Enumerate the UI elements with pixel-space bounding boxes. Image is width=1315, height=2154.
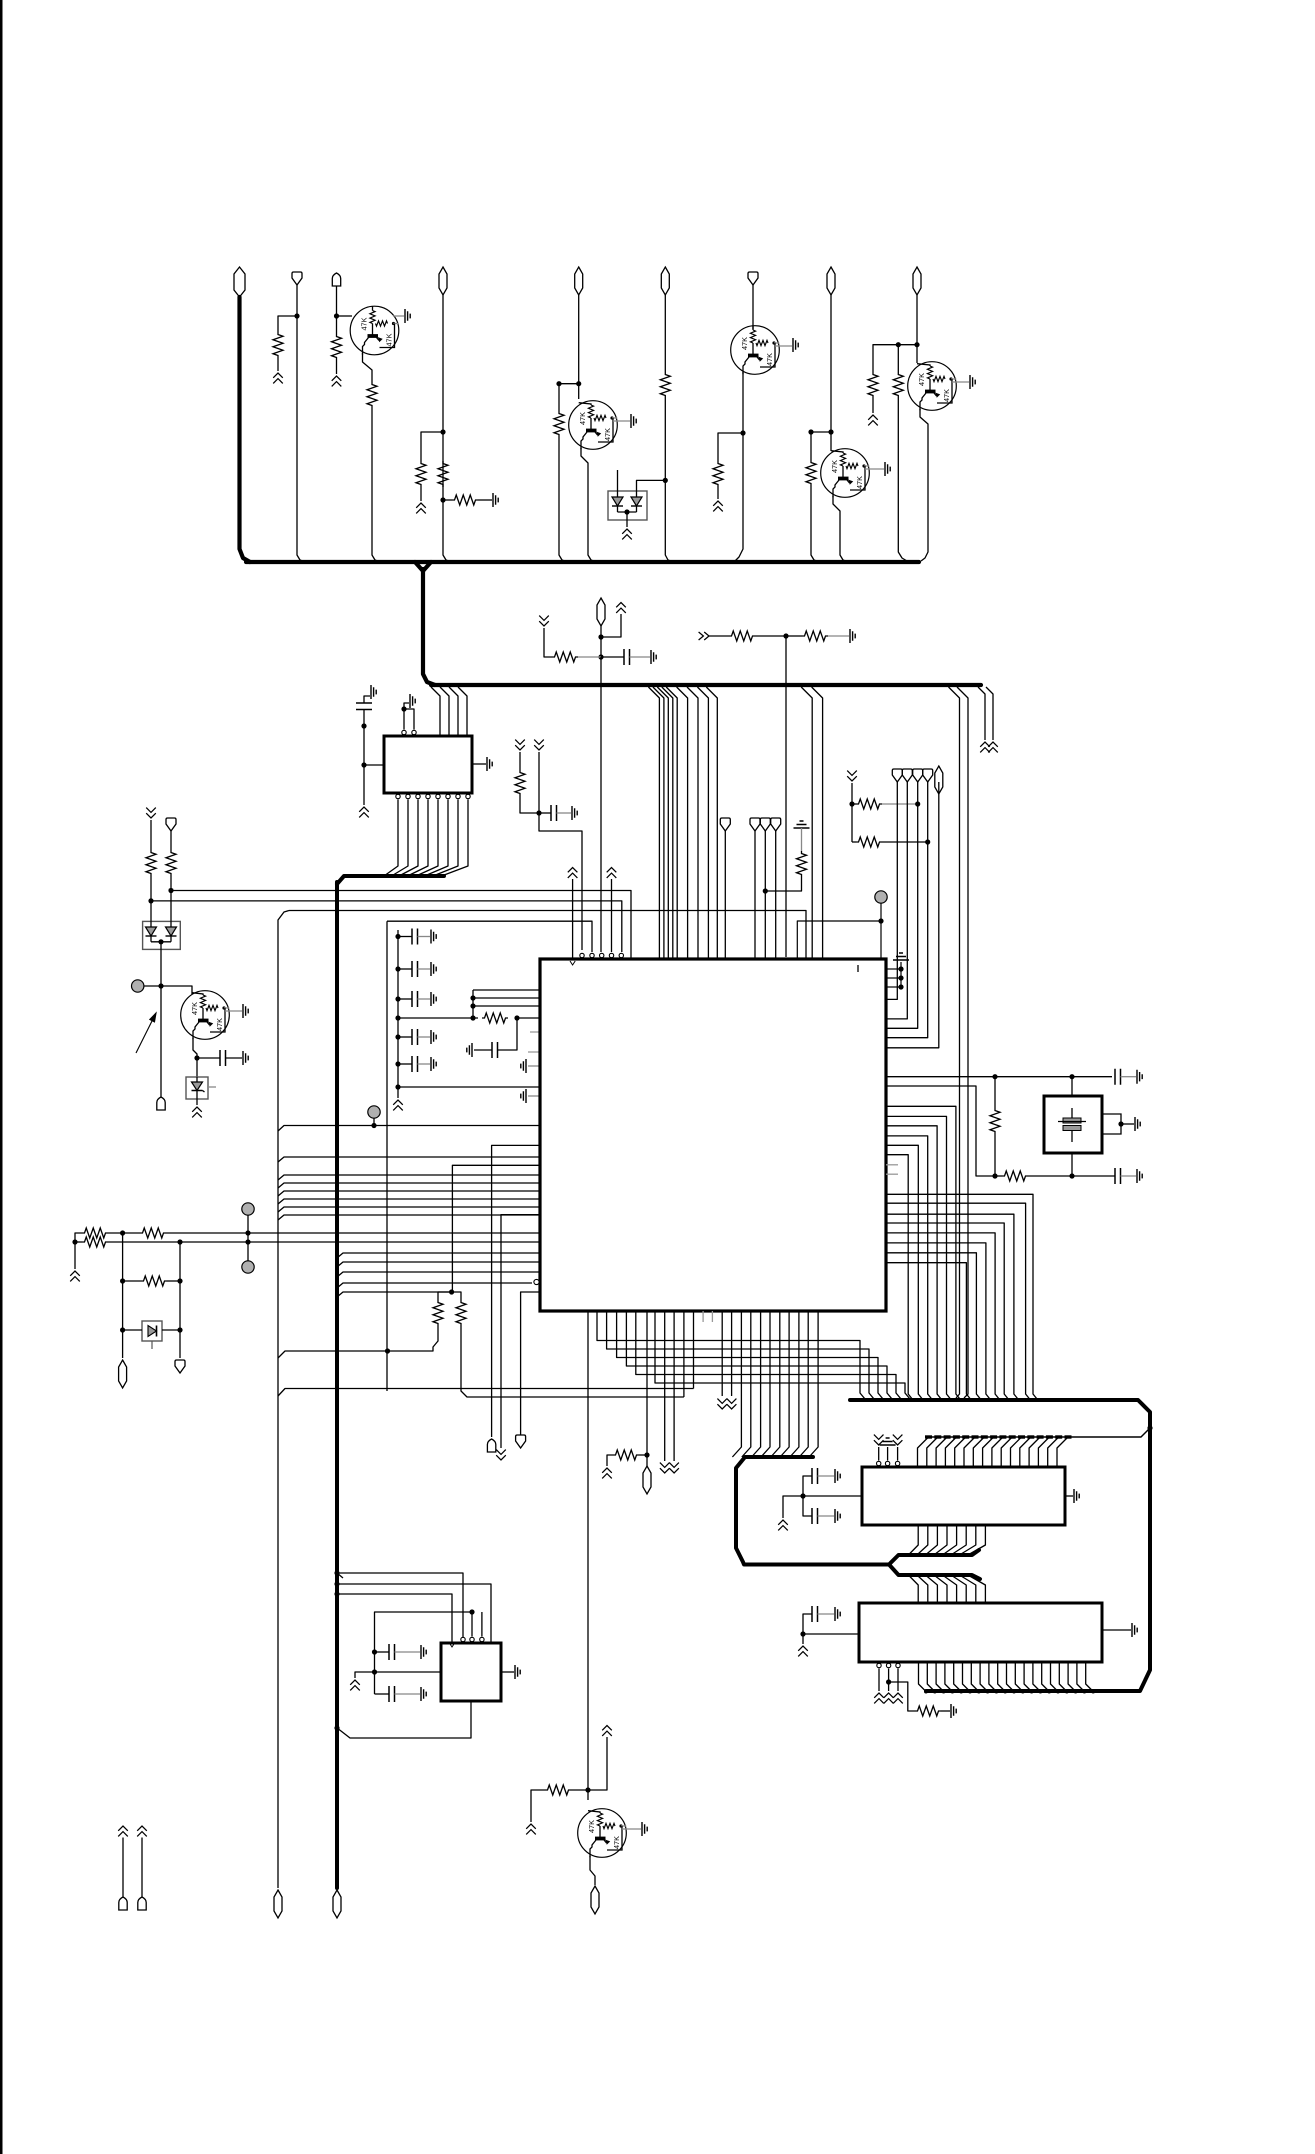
wire to R4	[421, 432, 443, 461]
wire chevron down and right	[544, 628, 552, 657]
ground for C3	[572, 806, 577, 820]
svg-text:47K: 47K	[917, 373, 926, 386]
left bold rail (vertical)	[335, 882, 339, 1888]
ground for R15	[850, 629, 855, 643]
U4 pin wire chevron A	[878, 1669, 880, 1692]
chevron source left net 1	[146, 808, 156, 818]
rail branch y1283 to bubble	[337, 1283, 532, 1288]
node left net a	[372, 1649, 377, 1654]
resistor R12	[897, 345, 899, 372]
node P5	[576, 381, 581, 386]
wire Q3 emitter to bus	[735, 433, 743, 561]
chevron terminal left net	[74, 1242, 76, 1269]
capacitor C12	[1072, 1175, 1115, 1177]
wire node to U2 left pin	[364, 764, 384, 766]
U1 bottom pin to row 1397	[683, 1311, 685, 1397]
rail branch y1272	[337, 1272, 540, 1277]
resistor R14 horizontal	[729, 631, 755, 641]
node P4 upper	[440, 429, 445, 434]
connector pins P15-P18 (flag)	[892, 769, 902, 782]
IC U1 (main microcontroller)	[540, 959, 886, 1311]
connector pin P23	[591, 1886, 599, 1914]
wire to R14	[709, 635, 729, 637]
resistor R24	[797, 851, 807, 877]
pin wires down to U1 right edge	[886, 782, 897, 999]
wire R19 to IC	[517, 1017, 540, 1019]
wire chevron to U5 left pin	[355, 1672, 441, 1678]
wires bus to U1 top edge (right group)	[801, 687, 812, 958]
Q2 lead to ground	[613, 420, 630, 422]
capacitor C7	[398, 998, 412, 1000]
node cap net	[536, 810, 541, 815]
wire P5 down to node	[578, 295, 580, 384]
node xtal bottom A	[992, 1173, 997, 1178]
wire node left to R7	[559, 384, 579, 411]
bus right end wire B	[986, 687, 993, 740]
connector pin P7	[748, 272, 758, 285]
ground for C8	[431, 1030, 436, 1044]
ground for C2	[371, 685, 376, 699]
resistor R26 horizontal	[82, 1237, 108, 1247]
Q7 emitter wire down	[590, 1856, 595, 1885]
wire P9 into Q5	[916, 345, 918, 363]
ground for C10 net	[467, 1043, 472, 1057]
svg-text:47K: 47K	[578, 412, 587, 425]
transistor Q3 (digital)	[731, 326, 780, 375]
resistor R5	[438, 461, 448, 487]
U1 bottom pin chevron A	[664, 1311, 666, 1461]
node P10 upper	[598, 634, 603, 639]
wire rail X top to IC pin 806	[289, 911, 806, 959]
chevron terminal D1	[622, 529, 632, 539]
ground for C17	[421, 1687, 426, 1701]
Q5 emitter to bus	[920, 409, 928, 561]
svg-text:47K: 47K	[215, 1018, 224, 1031]
wire C1 to ground	[630, 656, 651, 658]
node cap bank 1	[395, 934, 400, 939]
node P10 lower	[598, 654, 603, 659]
capacitor C17	[375, 1693, 390, 1695]
page left edge bar	[0, 0, 3, 2154]
connector pin P24 (bullet)	[119, 1897, 127, 1910]
U1 top clock pin with chevron	[568, 868, 578, 878]
U1 left stub row 1292 down to pin	[521, 1292, 540, 1435]
test point node (gray)	[132, 980, 144, 992]
chevron source bottom-left B	[137, 1826, 147, 1836]
node C2b	[361, 762, 366, 767]
chevron terminal R4	[416, 503, 426, 513]
capacitor C13	[803, 1476, 812, 1496]
U5 right stub ground	[501, 1671, 514, 1673]
U1 right edge outer bundle to loop bus	[886, 1194, 1039, 1400]
U2 right pin to ground	[472, 763, 486, 765]
wire gray node down	[880, 903, 882, 958]
long wire y1388 to U1 pin	[278, 1389, 694, 1397]
connector pin P4	[439, 267, 447, 295]
thick supply wire from P1 to bus	[240, 297, 251, 562]
svg-text:47K: 47K	[603, 428, 612, 441]
chevron terminal zener	[192, 1107, 202, 1117]
diode D4 in box	[142, 1321, 162, 1341]
U1 bottom pin wire staggered 4	[626, 1311, 895, 1400]
connector pin P12	[166, 818, 176, 831]
wire P8 down to node	[830, 295, 832, 432]
wire resistor row	[398, 1017, 478, 1019]
ground for C4	[243, 1051, 248, 1065]
U3 right stub ground	[1065, 1495, 1073, 1497]
wire P10 long down to IC1 pin	[600, 657, 602, 952]
chevron terminal below	[496, 1450, 506, 1460]
Q6 lead to ground	[225, 1010, 242, 1012]
wire node to chevron riser	[601, 614, 621, 637]
node P9	[914, 342, 919, 347]
wire node left to R10	[811, 432, 831, 460]
wire P2 down to bus	[297, 285, 305, 562]
node xtal bottom B	[1069, 1173, 1074, 1178]
chevron R30 left	[607, 1455, 613, 1466]
ground for triple stub	[893, 953, 909, 960]
crystal case tab	[1102, 1114, 1121, 1134]
Q5 lead to ground	[952, 381, 969, 383]
branch wire y1207	[278, 1207, 540, 1212]
node P4 lower	[440, 497, 445, 502]
node col1 a	[120, 1278, 125, 1283]
resistor R22	[994, 1077, 996, 1108]
ground for Q5	[970, 375, 975, 389]
resistor R1	[273, 332, 283, 358]
U5 pin riser c	[481, 1612, 483, 1637]
capacitor C9	[398, 1063, 412, 1065]
earth symbol above R24	[794, 821, 810, 828]
wire R24 to pin P28 wire	[765, 877, 801, 891]
branch wire y1215	[278, 1215, 540, 1220]
wire P7 into Q3	[752, 285, 754, 329]
svg-text:47K: 47K	[830, 460, 839, 473]
chevron source left	[539, 616, 549, 626]
resistor R2 below node	[336, 316, 338, 334]
Q1 collector lead to ground	[393, 315, 404, 317]
D2 internal junction	[151, 941, 171, 943]
ground for C11	[1137, 1070, 1142, 1084]
resistor R10	[806, 460, 816, 486]
resistor R29	[456, 1300, 466, 1326]
U1 bottom pin to row 1388	[693, 1311, 695, 1389]
wire gray node to junction	[144, 985, 161, 987]
D2b top lead	[170, 891, 172, 922]
connector pin P26 (flag)	[720, 818, 730, 831]
node Q6 emitter	[194, 1055, 199, 1060]
node xtal top A	[992, 1074, 997, 1079]
wire P12 to R18	[170, 831, 172, 850]
U1 pin1 mark	[857, 965, 859, 972]
crystal top lead	[1071, 1077, 1073, 1096]
node P8	[828, 429, 833, 434]
U1 bottom pin wire staggered 3	[617, 1311, 886, 1400]
chevron terminal cap bank	[393, 1100, 403, 1110]
resistor R7	[554, 411, 564, 437]
wires from lower bus into U2 top	[431, 687, 440, 736]
resistor R18	[166, 850, 176, 876]
resistor R21 horizontal	[856, 837, 882, 847]
Q4 lead to ground	[865, 468, 884, 470]
ground for C13	[835, 1469, 840, 1483]
long wire rail X (thin)	[278, 911, 289, 1889]
U2 top pins ground net	[403, 709, 405, 730]
chevron for U1 pin 611	[607, 868, 617, 878]
wire to R16	[519, 752, 521, 770]
wire R28 down to row	[388, 1326, 439, 1351]
wire C3 to ground	[557, 812, 572, 814]
annotation arrow (adjust)	[136, 1013, 156, 1053]
connector pin P28 (flag)	[760, 818, 770, 831]
branch wire y1183	[278, 1183, 540, 1188]
ground for C16	[421, 1645, 426, 1659]
chevron terminal B	[988, 742, 998, 752]
wire R18 to node	[170, 876, 172, 891]
U4 bottom-left pin circles	[877, 1663, 881, 1667]
connector pin P2	[292, 272, 302, 285]
IC left stub ground 1	[528, 1065, 540, 1067]
node cap bank 2	[395, 966, 400, 971]
capacitor C14	[803, 1496, 812, 1516]
wire Q6 emitter to zener	[196, 1058, 198, 1077]
ground for Q1	[405, 309, 410, 323]
rail branch y1292	[337, 1292, 452, 1297]
node left net b	[372, 1669, 377, 1674]
wire earth to R24	[801, 828, 803, 851]
wire R1 to chevron	[277, 358, 279, 371]
bus Y-junction branch down	[415, 562, 431, 571]
wire node to riser chevron	[588, 1737, 607, 1790]
wire down column 2	[179, 1242, 181, 1358]
wire R3 to bus	[372, 408, 380, 562]
node net1	[148, 898, 153, 903]
capacitor C6	[398, 968, 412, 970]
node row1 right	[915, 801, 920, 806]
node C2a	[361, 723, 366, 728]
resistor R8	[660, 372, 670, 398]
connector pin P22 below node	[646, 1455, 648, 1466]
capacitor C3	[539, 812, 551, 814]
svg-text:47K: 47K	[740, 337, 749, 350]
connector pin P29 (flag)	[771, 818, 781, 831]
left resistor network row 2	[75, 1241, 82, 1243]
svg-text:47K: 47K	[360, 317, 369, 330]
wire C2 top to ground	[364, 696, 370, 703]
bus right end wire A	[978, 687, 985, 740]
connector pin P3	[332, 273, 340, 286]
connector pin P19	[935, 766, 943, 794]
rail branch to U5 pin a	[337, 1573, 343, 1578]
chevron source B	[534, 740, 544, 750]
chevron terminal R1	[273, 373, 283, 383]
wire R10 to bus	[811, 486, 819, 562]
node R14/R15	[783, 633, 788, 638]
wire U1 to crystal bottom net	[886, 1086, 995, 1176]
node pin P28 wire	[763, 888, 768, 893]
svg-text:47K: 47K	[942, 389, 951, 402]
U3 fan from inner bus	[918, 1437, 929, 1466]
resistor R11	[868, 372, 878, 398]
U1 right edge gray stubs	[886, 1164, 898, 1166]
wire from y921 to pin 592	[387, 921, 592, 952]
crystal bottom lead	[1071, 1153, 1073, 1176]
transistor Q4 (digital)	[821, 449, 870, 498]
wire P5 node into Q2	[578, 384, 580, 399]
D1a top lead	[617, 470, 619, 491]
chevron terminal R9	[713, 501, 723, 511]
connector pin P14 at rail X bottom	[274, 1890, 282, 1918]
U4 right stub ground	[1102, 1629, 1131, 1631]
diode D2b	[166, 927, 177, 936]
U1 bottom fan to lower-left bold bus	[732, 1311, 741, 1457]
dual diode pack D1	[608, 491, 647, 520]
node cap bank 5	[395, 1061, 400, 1066]
rail branch y1262	[337, 1262, 540, 1267]
svg-text:47K: 47K	[587, 1820, 596, 1833]
node P3	[334, 313, 339, 318]
node R19 right	[514, 1015, 519, 1020]
node row2 right	[925, 839, 930, 844]
lower wire bus (thick horizontal)	[431, 683, 981, 687]
diode D1b	[631, 497, 642, 506]
gray node mid left	[368, 1106, 380, 1118]
U4 left bypass net	[803, 1634, 859, 1644]
capacitor C10	[474, 1049, 492, 1051]
U1 left stub row 1214 down to chevron	[501, 1215, 540, 1448]
bold fork upper bar	[886, 1550, 979, 1565]
branch wire y1175	[278, 1175, 540, 1180]
power bus (thick horizontal)	[246, 560, 919, 564]
U1 left stub net vertical	[472, 990, 474, 1018]
node row1 a	[120, 1230, 125, 1235]
bold loop top bus	[850, 1400, 1150, 1691]
transistor Q1 (digital)	[350, 306, 399, 355]
wire down to R17	[150, 820, 152, 850]
left resistor network row 1	[75, 1233, 82, 1242]
wire P10 to lower node	[600, 637, 602, 657]
wire C2 bottom down	[363, 710, 365, 806]
transistor Q5 (digital)	[908, 362, 957, 411]
ground for C9	[431, 1057, 436, 1071]
Q7 lead to ground	[622, 1828, 641, 1830]
ground for Q7	[642, 1822, 647, 1836]
node D2 output	[158, 983, 163, 988]
branch wire y1199	[278, 1199, 540, 1204]
U3 pin riser earth	[887, 1447, 889, 1461]
U1 left gray stub b	[528, 1051, 540, 1053]
chevron riser Q7	[602, 1726, 612, 1736]
capacitor C4	[197, 1057, 220, 1059]
node row2 b	[245, 1239, 250, 1244]
U4 pin wire chevron C	[897, 1669, 899, 1692]
connector pin P11 at rail bottom	[333, 1890, 341, 1918]
wire zener down	[196, 1099, 198, 1105]
resistor R28	[433, 1300, 443, 1326]
Q2 emitter wire to bus	[581, 448, 596, 562]
capacitor C8	[398, 1036, 412, 1038]
node Q3 emitter	[740, 430, 745, 435]
rail branch y1253	[337, 1253, 540, 1258]
Q3 emitter wire down	[742, 372, 744, 433]
U5 clock mark	[449, 1643, 454, 1647]
ground for C14	[835, 1509, 840, 1523]
Q3 lead to ground	[775, 345, 792, 347]
connector pin P13 (bullet)	[157, 1097, 165, 1110]
U1 bottom pin stub b	[711, 1311, 713, 1322]
long wire net2 to IC top pin 631	[171, 891, 631, 959]
wire R13 to node	[578, 656, 601, 658]
diode D1a	[612, 497, 623, 506]
U2 top pin 2	[412, 730, 416, 734]
U1 top pin circles	[580, 953, 584, 957]
wire R14 to node	[755, 635, 786, 637]
wire P6 down	[664, 295, 666, 372]
node Q7 base	[585, 1787, 590, 1792]
ground for C12	[1137, 1169, 1142, 1183]
rail branch to U5 pin b	[337, 1584, 491, 1643]
IC left stub ground 2	[528, 1095, 540, 1097]
transistor Q6 (digital)	[181, 991, 230, 1040]
U1 bottom pin wire staggered 5	[636, 1311, 904, 1400]
wire rail x387	[386, 921, 388, 1391]
svg-text:47K: 47K	[612, 1836, 621, 1849]
node R12 top	[896, 342, 901, 347]
wire row to IC at 1087	[398, 1086, 540, 1088]
IC U2 (8-pin)	[384, 736, 472, 793]
branch wire y1191	[278, 1191, 540, 1196]
wire P3 to node	[336, 286, 338, 316]
wire node down to IC1 top pin	[785, 636, 787, 957]
U1 left stub row 1145 down to pin	[492, 1145, 540, 1437]
chevron terminal A	[980, 742, 990, 752]
chevron terminal R2	[332, 376, 342, 386]
wire R16 to node	[520, 796, 539, 813]
zener diode D3 in box	[186, 1077, 208, 1099]
wire R15 to ground	[828, 635, 849, 637]
connector pin P10	[597, 598, 605, 626]
branch wire y1126	[278, 1126, 540, 1132]
IC U3 (latch upper)	[862, 1467, 1065, 1525]
U1 bottom pin stub a	[702, 1311, 704, 1322]
wire R29 down to row 1397 to U1 pin	[461, 1326, 684, 1397]
D2a top lead	[150, 901, 152, 921]
U1 bottom pin chevron D	[731, 1311, 733, 1396]
U1 right ground triple stub	[886, 968, 901, 970]
resistor R13 horizontal	[552, 652, 578, 662]
connector pin P21 (flag)	[175, 1360, 185, 1373]
D1 bottom lead	[626, 512, 628, 527]
U3 pin riser chevron A	[878, 1447, 880, 1461]
chevron terminal riser	[616, 603, 626, 613]
wire C4 to ground	[226, 1057, 243, 1059]
D1 internal junction	[618, 511, 637, 513]
node col2 a	[177, 1278, 182, 1283]
connector pin P30 (bullet)	[487, 1439, 495, 1452]
U3 top-left pin circles	[877, 1461, 881, 1465]
gray node bottom	[242, 1261, 254, 1273]
node cap bank 3	[395, 996, 400, 1001]
U3 left bypass net	[783, 1496, 862, 1518]
U5 bottom wire loop	[337, 1701, 471, 1738]
resistor R25 horizontal	[140, 1228, 166, 1238]
U5 pin riser to left net	[375, 1612, 473, 1694]
U2 bottom pin wires to bold bus	[384, 800, 398, 877]
ground for Q6	[243, 1004, 248, 1018]
D4 bottom stub	[151, 1341, 153, 1349]
chevron terminal U5	[350, 1680, 360, 1690]
resistor R23 horizontal	[995, 1175, 1002, 1177]
